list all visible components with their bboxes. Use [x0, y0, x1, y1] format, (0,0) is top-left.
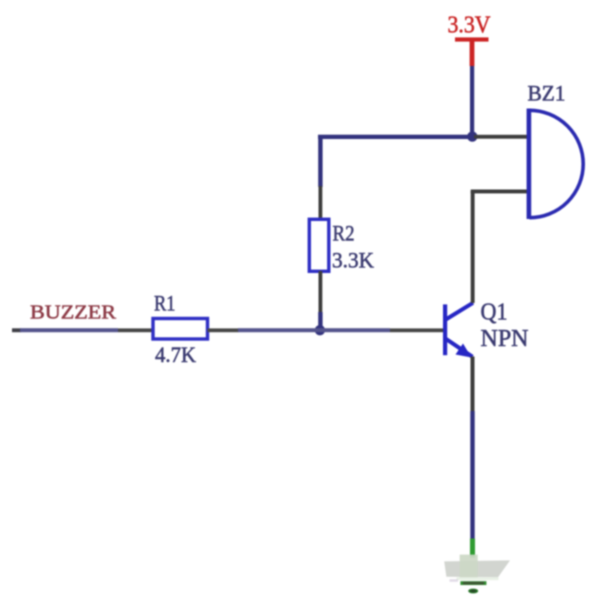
power symbol 3.3V bar	[455, 37, 489, 41]
transistor Q1 emitter stroke	[446, 339, 473, 357]
wire: R1 to node B and on toward Q1 base (purple segment)	[238, 328, 390, 332]
wire: collector vertical up to buzzer bottom pin corner	[471, 191, 475, 303]
wire: buzzer top pin horizontal from node A	[474, 135, 528, 139]
svg-text:4.7K: 4.7K	[155, 342, 196, 367]
wire: green stem into ground symbol	[470, 539, 475, 558]
svg-text:R2: R2	[333, 221, 355, 246]
wire: base lead into Q1 (dark segment)	[390, 328, 444, 332]
ground symbol washed strip below blob	[457, 577, 499, 580]
ground symbol middle bar	[460, 581, 486, 585]
wire: R2 bottom lead to node B (navy part)	[318, 312, 322, 330]
transistor Q1 base bar	[443, 304, 447, 355]
svg-text:BUZZER: BUZZER	[30, 302, 117, 324]
svg-text:3.3V: 3.3V	[448, 13, 492, 39]
buzzer BZ1 flat edge	[527, 109, 532, 220]
wire: left stub of BUZZER net (purple segment)	[20, 328, 118, 332]
ground symbol watermark blob (pale gray quad)	[444, 560, 510, 577]
svg-text:R1: R1	[154, 291, 176, 316]
ground symbol bottom dot	[468, 589, 478, 594]
wire: R2 bottom lead (dark part)	[319, 271, 323, 312]
resistor R2 body	[309, 219, 329, 271]
node B junction dot (BUZZER net / base node)	[315, 325, 325, 335]
svg-text:Q1: Q1	[481, 300, 508, 326]
wire: emitter vertical (dark segment)	[471, 357, 475, 412]
buzzer BZ1 dome arc	[530, 110, 584, 217]
wire: vertical into R2 top (dark part)	[319, 186, 323, 220]
ground symbol faint smudge	[450, 579, 459, 582]
svg-text:3.3K: 3.3K	[332, 248, 374, 273]
wire: vertical branch down toward R2 (navy upper part)	[318, 135, 322, 187]
resistor R1 body	[153, 319, 208, 340]
node A junction dot (supply / buzzer / R2 net)	[467, 131, 477, 141]
wire: 3.3V vertical down to node A	[470, 66, 474, 136]
wire: buzzer bottom pin horizontal	[471, 190, 528, 194]
wire: left lead of R1 (dark segment)	[118, 328, 153, 332]
transistor Q1 collector stroke	[446, 303, 473, 320]
wire: horizontal from node A left to R2 branch corner	[318, 135, 474, 139]
svg-text:NPN: NPN	[481, 326, 529, 352]
transistor Q1 emitter arrowhead	[456, 344, 472, 358]
ground symbol washed top bar (pale green rectangle)	[460, 555, 478, 579]
svg-text:BZ1: BZ1	[528, 81, 566, 106]
wire: emitter vertical down to ground (navy segment)	[470, 411, 474, 540]
ground symbol middle bar dark core	[463, 582, 484, 585]
wire: left stub dark tip	[12, 328, 21, 332]
wire: R1 right lead (dark segment)	[208, 328, 239, 332]
ground symbol bottom dot dark core	[470, 590, 476, 593]
wire: red stem of power symbol	[470, 39, 475, 66]
